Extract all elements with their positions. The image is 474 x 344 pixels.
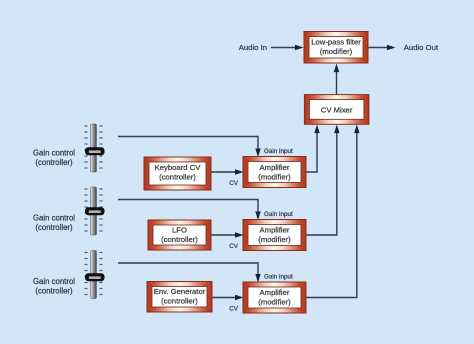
svg-text:Keyboard CV: Keyboard CV bbox=[155, 163, 202, 172]
cv mixer box bbox=[304, 95, 369, 125]
amplifier 3 box bbox=[243, 282, 306, 313]
svg-text:Amplifier: Amplifier bbox=[260, 288, 290, 297]
wire amplifier 1 to mixer bbox=[307, 125, 320, 173]
lfo box bbox=[148, 220, 211, 250]
svg-text:(modifier): (modifier) bbox=[258, 235, 291, 244]
svg-text:Gain control: Gain control bbox=[33, 277, 75, 286]
svg-text:Audio In: Audio In bbox=[239, 43, 267, 52]
svg-text:CV Mixer: CV Mixer bbox=[321, 106, 353, 115]
env generator box bbox=[147, 282, 212, 313]
gain control slider 3 bbox=[84, 251, 104, 299]
svg-text:Amplifier: Amplifier bbox=[260, 226, 290, 235]
amplifier 2 box bbox=[243, 220, 306, 251]
low-pass filter box bbox=[304, 32, 368, 64]
svg-text:Gain input: Gain input bbox=[264, 211, 293, 218]
svg-text:(controller): (controller) bbox=[161, 297, 198, 306]
wire keyboard cv to amplifier 1 bbox=[212, 169, 244, 174]
svg-text:Env. Generator: Env. Generator bbox=[154, 287, 206, 296]
wire amplifier 3 to mixer bbox=[307, 125, 360, 298]
svg-text:(controller): (controller) bbox=[161, 235, 198, 244]
svg-text:(controller): (controller) bbox=[35, 287, 73, 296]
svg-text:LFO: LFO bbox=[172, 226, 187, 235]
wire audio-in arrow bbox=[271, 45, 304, 50]
wire gain 1 to amplifier 1 bbox=[118, 137, 261, 158]
svg-text:(modifier): (modifier) bbox=[258, 298, 291, 307]
wire gain 3 to amplifier 3 bbox=[118, 263, 261, 283]
svg-text:(modifier): (modifier) bbox=[258, 173, 291, 182]
svg-text:CV: CV bbox=[229, 306, 239, 313]
wire audio-out arrow bbox=[369, 45, 396, 50]
svg-text:Low-pass filter: Low-pass filter bbox=[311, 38, 361, 47]
svg-text:(controller): (controller) bbox=[159, 173, 196, 182]
svg-text:Audio Out: Audio Out bbox=[404, 43, 439, 52]
wire amplifier 2 to mixer bbox=[307, 125, 340, 236]
svg-text:Gain input: Gain input bbox=[264, 274, 293, 281]
svg-text:CV: CV bbox=[229, 243, 239, 250]
svg-text:CV: CV bbox=[229, 180, 239, 187]
svg-text:Gain control: Gain control bbox=[33, 214, 75, 223]
svg-text:Gain control: Gain control bbox=[33, 149, 75, 158]
svg-text:(controller): (controller) bbox=[35, 158, 73, 167]
svg-text:Amplifier: Amplifier bbox=[260, 163, 290, 172]
amplifier 1 box bbox=[243, 157, 306, 188]
svg-text:(modifier): (modifier) bbox=[320, 47, 353, 56]
keyboard cv box bbox=[144, 157, 211, 190]
wire env generator to amplifier 3 bbox=[212, 295, 244, 300]
wire lfo to amplifier 2 bbox=[212, 232, 244, 237]
svg-text:(controller): (controller) bbox=[35, 223, 73, 232]
gain control slider 1 bbox=[84, 124, 104, 172]
wire mixer to filter bbox=[334, 64, 339, 95]
wire gain 2 to amplifier 2 bbox=[118, 200, 261, 221]
svg-text:Gain input: Gain input bbox=[264, 148, 293, 155]
gain control slider 2 bbox=[84, 187, 104, 235]
